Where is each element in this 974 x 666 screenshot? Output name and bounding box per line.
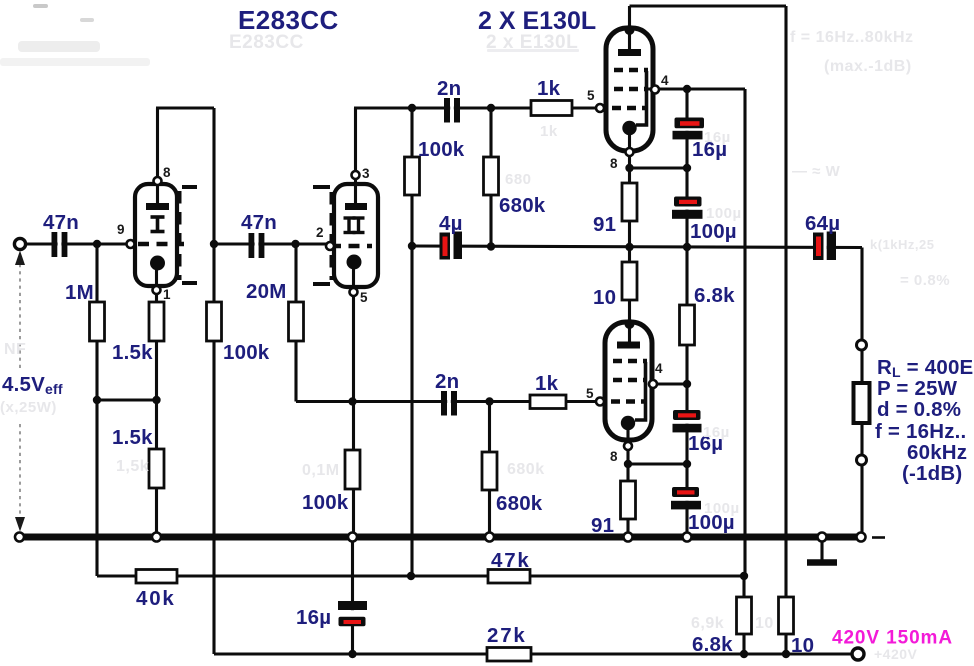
node: 10 ohm bottom junction [782,650,790,658]
node: tube II cathode junction [348,397,356,405]
tube II envelope [334,184,378,287]
arrowhead up [15,251,25,266]
tube 4 cathode dot [621,416,635,430]
bus terminal left [15,533,24,542]
svg-text:100µ: 100µ [704,500,740,517]
node: driver plate top junction [408,104,416,112]
node: bypass link junction [683,164,691,172]
svg-text:f = 16Hz..80kHz: f = 16Hz..80kHz [790,29,914,46]
svg-text:+420V: +420V [874,646,918,662]
svg-text:1k: 1k [537,77,561,100]
tube 3 g3 dashes [614,68,648,72]
output terminal lower [857,455,867,465]
resistor 1.5k lower [149,449,164,488]
tube II pin 3 circle [352,171,360,179]
node: tube I anode coupling junction [210,240,218,248]
minus mark at bus right end [872,536,885,539]
capacitor C11 16u black plate [338,601,367,610]
capacitor C3 2n plates [444,98,450,123]
wire: 680k upper chain x=491 [489,108,492,247]
tube 4 g3-cathode tie [635,362,646,420]
ground symbol stem [820,540,823,560]
tube 3 pin 8 circle [626,148,634,156]
capacitor C5 4u coupling: gap [450,241,454,252]
svg-text:f = 16Hz..: f = 16Hz.. [875,420,966,443]
tube II numeral [344,217,365,233]
capacitor C9 100u red plate [672,487,699,497]
wire: load link upper segment [860,350,863,456]
wire: tube4 cathode chain x=628 [626,423,629,537]
wire: vertical x=214 from top link down to 420V row [212,108,215,654]
svg-text:— ≈ W: — ≈ W [792,163,841,180]
tube I anode plate [146,203,169,210]
ground bus [19,534,861,541]
tube I grid dashes [138,242,184,246]
triode tube II (E283CC section II) [313,184,378,287]
svg-text:E283CC: E283CC [238,5,339,35]
tube I pin 9 circle [127,240,135,248]
svg-text:(x,25W): (x,25W) [0,399,57,416]
wire: tube II anode riser x=355 [354,108,357,204]
wire: screen bypass chain x=687 [685,89,688,537]
svg-text:(-1dB): (-1dB) [902,462,962,485]
tube 3 anode plate [618,49,641,56]
tube 3 g2 dashes [614,87,648,91]
svg-text:91: 91 [593,213,616,236]
svg-text:1k: 1k [535,372,559,395]
svg-text:100k: 100k [223,341,270,364]
capacitor C7 100u upper: gap [681,206,693,210]
tube 3 g3-cathode tie [636,71,647,125]
tube 4 anode plate [617,342,640,349]
svg-text:3: 3 [362,166,370,181]
svg-text:680k: 680k [496,492,543,515]
wire: link y=464 tube4 cathode to bypass chain [628,462,687,465]
capacitor C10 64u output: gap [823,242,826,253]
svg-text:6.8k: 6.8k [692,633,733,656]
tube 4 g2 dashes [613,378,647,382]
capacitor C1 47n plates [52,232,58,257]
tube 4 envelope [605,322,652,440]
wire: vertical x=97 grid leak / feedback chain [95,244,98,576]
wire: 16u cathode bypass chain below bus x=352.5 [351,537,354,654]
capacitor C6 16u red plate [675,118,705,129]
svg-text:680k: 680k [507,461,545,478]
resistor 27k [487,648,531,662]
svg-text:10: 10 [593,286,616,309]
svg-text:8: 8 [163,165,171,180]
tube II dashed envelope half [330,192,334,280]
node: tube4 cathode junction [624,460,632,468]
svg-text:47n: 47n [43,211,79,234]
pentode tube 4 (lower E130L) [605,319,652,440]
wire: 6.8k dropper chain x=744 [742,576,745,654]
resistor 680k lower [482,452,497,490]
capacitor C4 2n lower: gap [447,396,451,407]
svg-text:4µ: 4µ [439,212,463,235]
wire: output row y=247 through 4u and 64u caps [412,246,862,248]
capacitor C11 16u red plate [339,617,366,627]
svg-text:9: 9 [117,222,125,237]
svg-text:4: 4 [655,361,663,376]
svg-text:= 0.8%: = 0.8% [900,272,950,289]
resistor 1M [90,302,105,341]
svg-text:5: 5 [587,88,595,103]
capacitor C11 16u feedback bypass: gap [346,610,359,618]
tube I cathode dot [150,256,165,271]
capacitor C8 16u screen lower: gap [681,419,693,424]
resistor 47k [488,570,530,584]
tube I pin 1 circle [153,286,161,294]
svg-text:1.5k: 1.5k [112,341,153,364]
svg-text:2n: 2n [435,370,459,393]
svg-text:5: 5 [586,386,594,401]
wire: top rail y=6 [630,4,787,7]
wire: screen feed vertical x=745 [743,89,746,576]
wire: input row y=244 input terminal to tube I grid pin9 [24,242,131,245]
resistor 91 upper [622,183,637,221]
tube 3 pin 4 circle [651,86,659,94]
svg-text:5: 5 [360,290,368,305]
tube 3 envelope [606,28,653,151]
wire: link y=400 between 1M and 1.5k chains [97,398,157,401]
svg-text:47k: 47k [491,549,531,572]
svg-text:E283CC: E283CC [229,32,304,53]
node: 2n lower right junction [485,397,493,405]
node: 2n upper right junction [487,104,495,112]
node: tube3 cathode junction [625,164,633,172]
node: 16u bottom junction [348,650,356,658]
svg-text:0,1M: 0,1M [302,462,340,479]
node: row2 mid junction [407,572,415,580]
pentode tube 3 (upper E130L) [606,25,653,151]
svg-text:6.8k: 6.8k [694,284,735,307]
capacitor C10 64u red plate [813,233,824,261]
wire: load link lower segment to bus [860,464,863,536]
capacitor C8 16u black plate [673,424,702,433]
wire: B+ vertical x=786 down to 10 ohm [784,6,787,654]
resistor 91 lower [621,481,636,519]
svg-text:10: 10 [791,634,814,657]
capacitor C1 47n input: gap [58,238,62,250]
node: tube II grid junction [291,240,299,248]
measurement arrow 4.5Veff [15,251,25,532]
tube 3 anode top blob [625,25,635,35]
resistor 1k lower grid stopper [530,395,566,409]
svg-text:(max.-1dB): (max.-1dB) [824,58,912,75]
svg-text:8: 8 [610,449,618,464]
bus terminal 100k cathode [348,533,357,542]
svg-text:680k: 680k [499,194,546,217]
svg-text:100µ: 100µ [706,205,742,222]
resistor 680k upper [484,157,499,195]
dashed measure line upper [19,264,21,368]
node: bypass output junction [683,243,691,251]
node: row2 right junction [740,572,748,580]
resistor 20M [289,302,304,341]
node: 1M bottom junction [93,396,101,404]
svg-text:16µ: 16µ [703,424,730,441]
svg-text:16µ: 16µ [296,606,331,629]
bus terminal right end [857,533,866,542]
resistor 6.8k supply [737,597,752,634]
svg-text:2n: 2n [437,77,461,100]
svg-text:d = 0.8%: d = 0.8% [877,398,961,421]
svg-text:64µ: 64µ [805,212,840,235]
wire: link y=168 tube3 cathode to bypass chain [630,166,688,169]
svg-text:100k: 100k [302,491,349,514]
tube I dashed envelope half [178,191,182,280]
capacitor C5 4u black plate [454,232,463,260]
wire: lower driver row y=401 from 20M to tube4 pin5 [296,400,598,403]
capacitor C6 16u screen upper: gap [681,127,693,131]
wire: totem mid chain x=629.5 (91 and 10 ohm) [628,128,631,344]
resistor 1.5k upper [149,302,164,341]
tube 4 g1 dashes [611,399,644,403]
tube 4 anode top blob [625,319,635,329]
arrowhead down [15,517,25,532]
tube 4 pin 4 circle [649,380,657,388]
node: input grid junction [93,240,101,248]
wire: tube4 pin4 screen stub y=384 [648,382,687,385]
svg-text:2 X E130L: 2 X E130L [478,7,596,35]
svg-text:91: 91 [591,514,614,537]
tube II cathode dot [347,255,362,270]
dashed measure line lower [19,424,21,518]
tube 3 g1 dashes [612,106,645,110]
capacitor C8 16u red plate [673,410,701,420]
node: 4u right junction [487,242,495,250]
svg-text:1M: 1M [65,281,94,304]
tube 4 pin 5 circle [596,398,604,406]
svg-text:k(1kHz,25: k(1kHz,25 [870,237,934,252]
tube 4 g3 dashes [613,359,647,363]
tube 3 pin 5 circle [596,104,604,112]
svg-text:2: 2 [316,225,324,240]
svg-text:8: 8 [610,156,618,171]
wire: 680k lower chain x=489.5 [488,402,491,538]
tube 4 pin 8 circle [624,442,632,450]
capacitor C9 100u black plate [671,501,701,510]
resistor 10 totem [622,262,637,300]
svg-text:680: 680 [505,171,532,188]
node: cathode divider junction [152,396,160,404]
resistor 100k anode feed [207,302,222,341]
svg-text:1.5k: 1.5k [112,426,153,449]
node: totem output junction [625,243,633,251]
svg-text:1k: 1k [540,123,558,140]
svg-text:P = 25W: P = 25W [877,377,958,400]
wire: tube I cathode chain x=156 [155,263,158,537]
svg-text:16µ: 16µ [704,129,731,146]
tube 3 cathode dot [622,121,636,135]
svg-text:20M: 20M [246,280,286,303]
bus terminal ground [818,533,827,542]
capacitor C7 100u red plate [674,197,702,207]
svg-text:47n: 47n [241,211,277,234]
wire: 20M resistor chain x=296 [294,244,297,402]
svg-text:100µ: 100µ [690,220,737,243]
resistor 10 supply [779,597,794,634]
node: 6.8k bottom junction [740,650,748,658]
wire: tube I anode top link y=108 [156,106,214,109]
svg-text:2 x E130L: 2 x E130L [486,32,578,53]
svg-text:27k: 27k [487,624,527,647]
wire: coupling row y=244 node to tube II grid pin2 [214,242,330,245]
capacitor C2 47n coupling: gap [255,238,259,250]
wire: driver plate row y=108 to tube3 pin5 [354,106,598,109]
svg-text:1: 1 [163,287,171,302]
resistor 6.8k screen divider [680,305,695,345]
tube II pin 2 circle [326,242,334,250]
svg-text:40k: 40k [136,587,176,610]
capacitor C10 64u black plate [827,232,836,261]
resistor 100k tube II cathode [345,450,360,489]
tube II pin 5 circle [350,288,358,296]
svg-text:6,9k: 6,9k [691,615,724,632]
node: screen bypass top junction [683,85,691,93]
bus terminal 91 lower [624,533,633,542]
triode tube I (E283CC section I) [135,184,197,286]
bus terminal 680k [485,533,494,542]
tube II anode plate [345,203,367,210]
wire: feedback row2 y=576 [97,574,744,577]
capacitor C4 2n plates [441,391,447,416]
wire: vertical x=412 tube II plate load line [410,108,413,576]
tube I numeral [151,216,165,232]
node: lower bypass link junction [683,460,691,468]
wire: tube I anode riser x=157 [156,108,159,206]
ground symbol bar [807,559,837,566]
capacitor C3 2n upper: gap [450,103,454,114]
wire: tube3 pin4 screen row y=89 [648,87,745,90]
capacitor C7 100u black plate [672,210,703,219]
svg-text:NF: NF [4,341,26,358]
wire: 420V supply row y=654 [214,652,853,655]
open terminals and pin circles [14,86,866,661]
420V supply terminal [852,648,864,660]
wire: output drop x=862 to load [860,248,863,342]
node: tube4 screen junction [683,380,691,388]
resistor RL load [854,383,870,423]
svg-text:1,5k: 1,5k [116,458,149,475]
bus terminal 100u [683,533,692,542]
svg-text:10: 10 [755,615,774,632]
resistor 40k feedback [136,570,177,584]
capacitor C2 47n plates [249,233,255,258]
input terminal [14,238,25,249]
bus terminal 1.5k [152,533,161,542]
output terminal upper [857,340,867,350]
resistor 100k driver plate [405,157,420,195]
tube II grid dashes [330,244,372,248]
capacitor C6 16u black plate [673,131,703,140]
resistor 1k upper grid stopper [531,101,572,116]
wire: tube3 anode riser to top rail [628,6,631,53]
svg-text:60kHz: 60kHz [907,441,967,464]
svg-text:4: 4 [661,73,669,88]
wire: tube II cathode chain x=353.5 [352,262,355,537]
capacitor C9 100u lower: gap [681,496,693,501]
svg-text:100k: 100k [418,138,465,161]
capacitor C5 4u red plate [440,233,451,260]
tube I envelope [135,184,177,286]
node: 4u left junction [408,242,416,250]
tube I pin 8 circle [154,177,162,185]
